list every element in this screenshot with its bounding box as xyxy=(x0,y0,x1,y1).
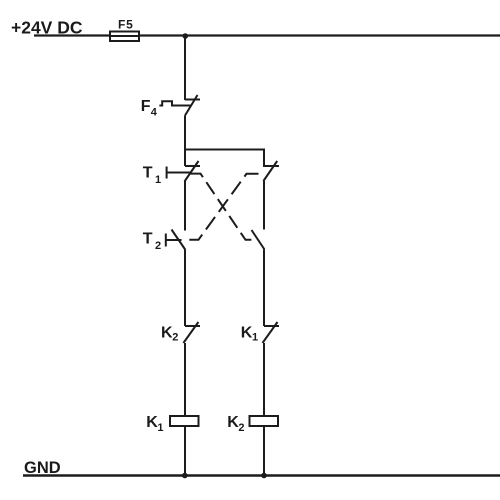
svg-text:T: T xyxy=(143,165,153,182)
svg-text:2: 2 xyxy=(155,240,161,252)
svg-text:1: 1 xyxy=(252,332,258,344)
svg-text:1: 1 xyxy=(157,422,163,434)
svg-text:T: T xyxy=(143,231,153,248)
svg-text:F: F xyxy=(141,98,151,115)
svg-text:GND: GND xyxy=(24,459,61,477)
svg-text:+24V DC: +24V DC xyxy=(11,18,83,38)
svg-text:F5: F5 xyxy=(118,18,134,32)
svg-text:4: 4 xyxy=(151,106,158,118)
svg-text:K: K xyxy=(161,325,173,342)
svg-text:K: K xyxy=(146,414,158,431)
svg-text:K: K xyxy=(227,414,239,431)
svg-text:2: 2 xyxy=(172,332,178,344)
svg-text:1: 1 xyxy=(155,174,161,186)
svg-text:2: 2 xyxy=(238,422,244,434)
svg-text:K: K xyxy=(241,325,253,342)
